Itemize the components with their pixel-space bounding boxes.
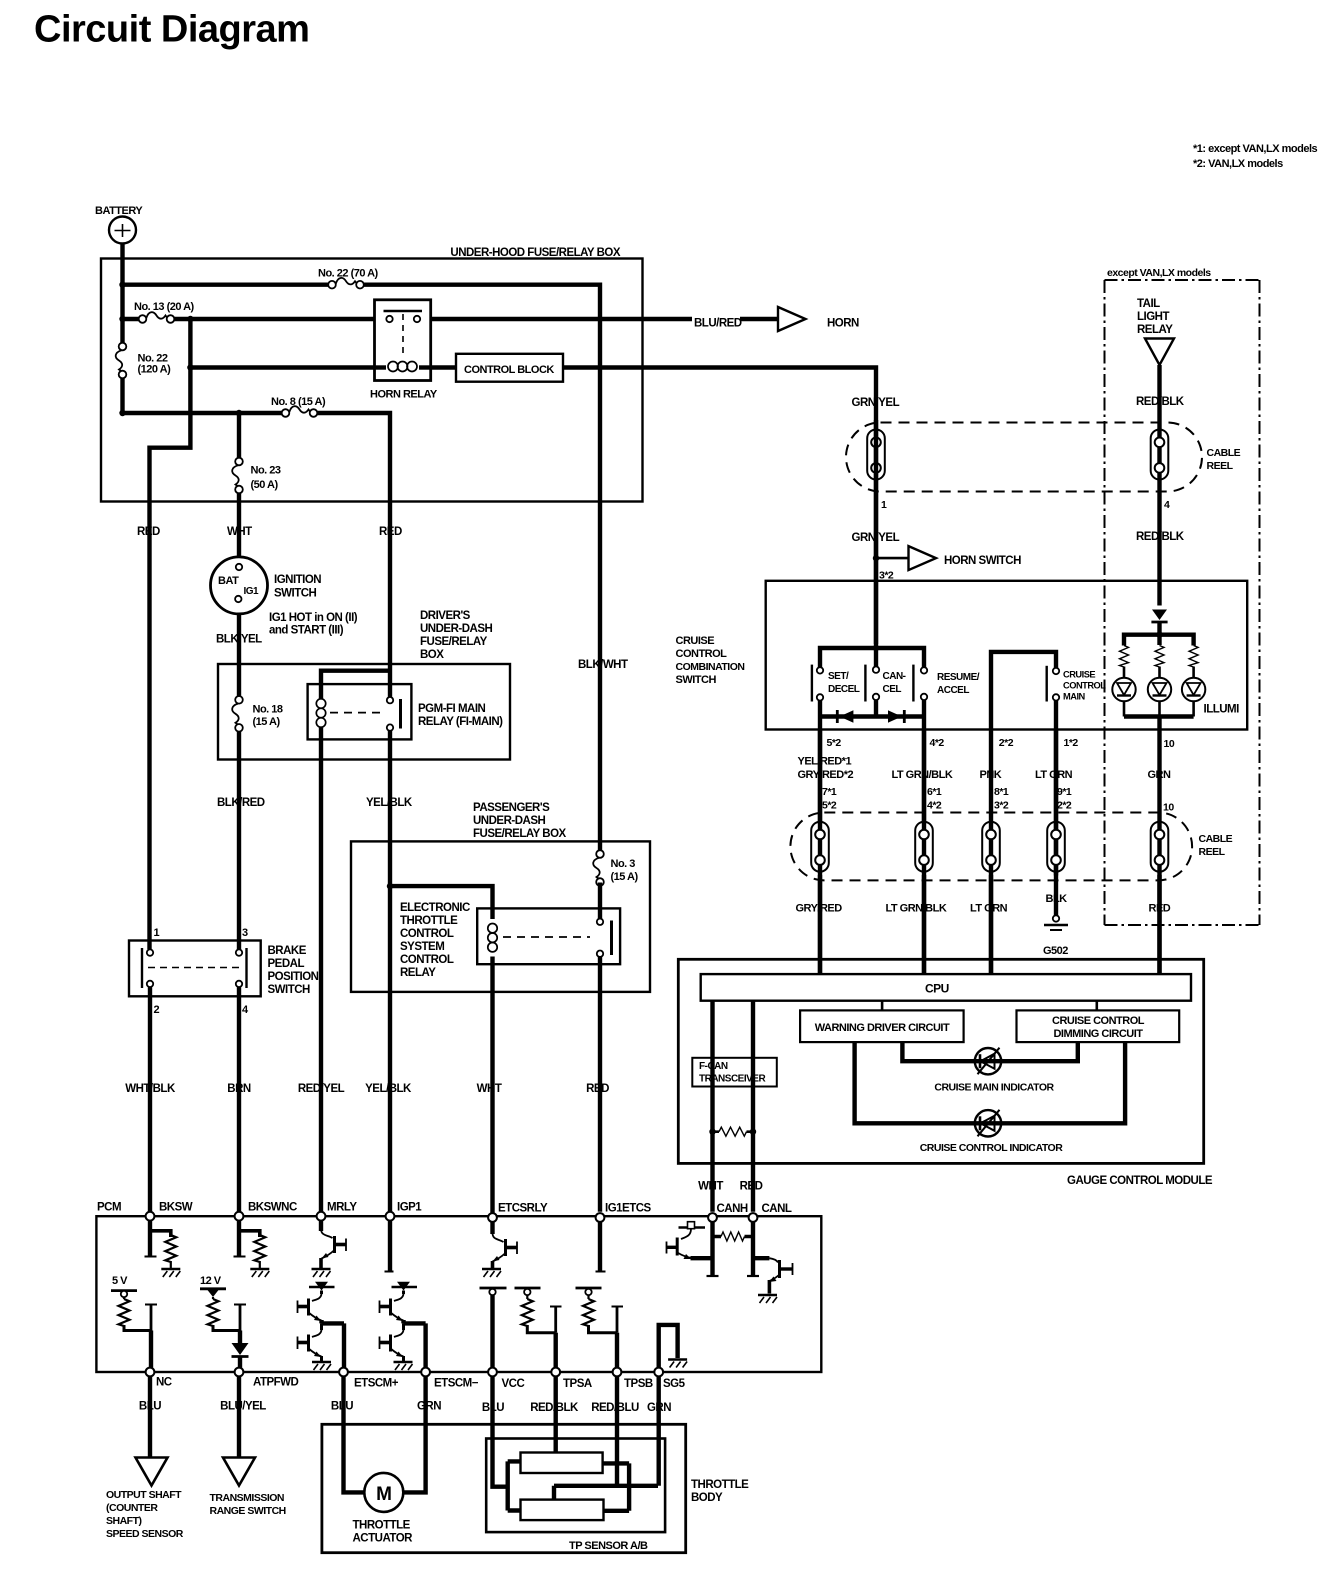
svg-text:(15 A): (15 A) [253, 716, 281, 728]
svg-text:ETCSRLY: ETCSRLY [498, 1203, 548, 1215]
svg-text:HORN: HORN [827, 318, 859, 330]
svg-text:No. 18: No. 18 [253, 704, 283, 716]
fuse No.23 50A [232, 458, 243, 494]
CAN resistor [713, 1235, 754, 1238]
svg-text:RELAY: RELAY [1137, 324, 1173, 336]
svg-text:TPSA: TPSA [563, 1378, 592, 1390]
svg-text:FUSE/RELAY: FUSE/RELAY [420, 636, 488, 648]
wire set/decel pin down [818, 701, 822, 824]
svg-text:TPSB: TPSB [624, 1378, 653, 1390]
wires cable reel into CPU [820, 875, 1160, 975]
svg-text:FUSE/RELAY BOX: FUSE/RELAY BOX [473, 828, 567, 840]
PCM bottom terminals [146, 1368, 155, 1377]
connector grn/yel [867, 430, 885, 480]
diode 2 [888, 710, 902, 722]
svg-text:1: 1 [154, 927, 160, 939]
svg-text:REEL: REEL [1199, 846, 1226, 858]
svg-text:4*2: 4*2 [927, 800, 942, 812]
SG5 cell [659, 1325, 678, 1368]
tp right bus [603, 1463, 630, 1510]
wire WHT No23 down [237, 413, 241, 458]
svg-text:PASSENGER'S: PASSENGER'S [473, 802, 550, 814]
svg-text:CONTROL BLOCK: CONTROL BLOCK [464, 364, 554, 376]
wire ATPFWD to range switch [237, 1376, 241, 1457]
svg-text:CRUISE: CRUISE [1063, 670, 1095, 680]
svg-text:SHAFT): SHAFT) [106, 1515, 142, 1527]
svg-text:PEDAL: PEDAL [268, 958, 305, 970]
svg-text:DRIVER'S: DRIVER'S [420, 610, 471, 622]
svg-text:CONTROL: CONTROL [676, 648, 728, 660]
IGP1 transistor pair [394, 1293, 404, 1301]
svg-text:ATPFWD: ATPFWD [253, 1377, 299, 1389]
svg-text:WHT: WHT [698, 1181, 723, 1193]
svg-text:BLU/RED: BLU/RED [694, 318, 742, 330]
svg-text:(COUNTER: (COUNTER [106, 1502, 158, 1514]
lower cable reel [790, 813, 1192, 881]
svg-text:LIGHT: LIGHT [1137, 311, 1169, 323]
CANH transistor [679, 1226, 706, 1228]
wires through lower cable reel [820, 730, 1056, 975]
svg-text:RED: RED [137, 526, 160, 538]
svg-text:RED: RED [379, 526, 402, 538]
svg-text:*2: VAN,LX models: *2: VAN,LX models [1193, 158, 1283, 170]
BKSW input cell [148, 1221, 152, 1256]
wire TPSB into R2 [615, 1376, 619, 1485]
svg-text:PGM-FI MAIN: PGM-FI MAIN [418, 703, 486, 715]
cruise control dimming circuit [1017, 1010, 1180, 1042]
svg-text:6*1: 6*1 [927, 786, 942, 798]
fuse No.22 70A [328, 278, 364, 289]
MRLY driver cell [319, 1221, 323, 1231]
svg-text:BATTERY: BATTERY [95, 205, 143, 217]
wire ETSCM- to motor [404, 1376, 426, 1492]
svg-text:GRN/YEL: GRN/YEL [852, 397, 900, 409]
svg-text:(50 A): (50 A) [251, 479, 279, 491]
svg-text:2*2: 2*2 [999, 737, 1014, 749]
bus 2*2 [991, 652, 1056, 824]
wire ETCS coil out down [490, 957, 494, 1214]
svg-text:BLK: BLK [1046, 893, 1068, 905]
svg-text:RED/YEL: RED/YEL [298, 1083, 345, 1095]
throttle actuator motor [364, 1473, 403, 1512]
svg-text:BAT: BAT [218, 575, 239, 587]
svg-text:WARNING DRIVER CIRCUIT: WARNING DRIVER CIRCUIT [815, 1022, 950, 1034]
svg-text:PCM: PCM [97, 1202, 121, 1214]
svg-text:WHT: WHT [227, 526, 252, 538]
svg-text:No. 22 (70 A): No. 22 (70 A) [318, 268, 379, 280]
diode 1 [836, 710, 839, 723]
svg-text:ACCEL: ACCEL [937, 685, 969, 696]
wire horn contact to horn [421, 317, 693, 321]
svg-text:TAIL: TAIL [1137, 298, 1160, 310]
TPSA cell [515, 1287, 541, 1290]
wire No13 feed [123, 317, 143, 321]
passenger's under-dash fuse/relay box [351, 841, 650, 992]
svg-text:TRANSCEIVER: TRANSCEIVER [699, 1074, 766, 1085]
wires CPU to circuit boxes [882, 1001, 1097, 1011]
svg-text:ILLUMI: ILLUMI [1204, 704, 1240, 716]
svg-text:DECEL: DECEL [828, 684, 860, 695]
wire TPSA into R1 top [554, 1376, 558, 1452]
svg-text:CRUISE: CRUISE [676, 635, 715, 647]
ATPFWD diode [238, 1331, 242, 1344]
svg-text:IG1 HOT in ON (II): IG1 HOT in ON (II) [269, 612, 358, 624]
svg-text:GRN: GRN [417, 1401, 441, 1413]
svg-text:CPU: CPU [925, 982, 949, 996]
svg-text:CRUISE CONTROL INDICATOR: CRUISE CONTROL INDICATOR [920, 1142, 1064, 1154]
svg-text:BKSW: BKSW [159, 1202, 193, 1214]
can-cel switch [864, 665, 866, 702]
CANH cell [710, 1222, 714, 1276]
svg-text:RELAY (FI-MAIN): RELAY (FI-MAIN) [418, 716, 503, 728]
MRLY 12V bar [309, 1286, 335, 1288]
svg-text:COMBINATION: COMBINATION [676, 661, 745, 673]
svg-text:CANL: CANL [762, 1203, 792, 1215]
IGP1 cell [388, 1221, 392, 1271]
under-hood fuse/relay box [101, 259, 643, 502]
fuse No.22 120A [116, 343, 127, 379]
wire 70A feed [123, 283, 333, 287]
svg-text:LT GRN/BLK: LT GRN/BLK [886, 903, 947, 915]
svg-text:2*2: 2*2 [1057, 800, 1072, 812]
svg-text:CRUISE MAIN INDICATOR: CRUISE MAIN INDICATOR [934, 1082, 1054, 1094]
svg-text:GAUGE CONTROL MODULE: GAUGE CONTROL MODULE [1067, 1175, 1213, 1187]
ETCSRLY driver cell [490, 1222, 494, 1234]
svg-text:THROTTLE: THROTTLE [400, 915, 458, 927]
connector red/blk [1151, 430, 1169, 480]
svg-text:12 V: 12 V [200, 1275, 222, 1287]
svg-text:GRN: GRN [1148, 769, 1172, 781]
svg-text:5 V: 5 V [112, 1275, 128, 1287]
warning driver circuit [800, 1010, 964, 1042]
svg-text:9*1: 9*1 [1057, 786, 1072, 798]
svg-text:CONTROL: CONTROL [400, 954, 454, 966]
svg-text:CANH: CANH [717, 1203, 748, 1215]
svg-text:THROTTLE: THROTTLE [353, 1520, 411, 1532]
horn switch branch [873, 555, 879, 561]
svg-text:BKSWNC: BKSWNC [248, 1202, 297, 1214]
svg-text:SWITCH: SWITCH [274, 588, 317, 600]
svg-text:UNDER-DASH: UNDER-DASH [473, 815, 546, 827]
gauge control module box [678, 959, 1203, 1163]
switch top bus [820, 648, 924, 667]
ignition switch [211, 557, 268, 614]
wire ignition to No18 fuse [237, 614, 241, 697]
wires CANH/CANL down [713, 1001, 754, 1212]
svg-text:SPEED SENSOR: SPEED SENSOR [106, 1528, 184, 1540]
svg-text:SWITCH: SWITCH [676, 674, 717, 686]
svg-text:IGNITION: IGNITION [274, 574, 321, 586]
svg-text:BLK/WHT: BLK/WHT [578, 659, 628, 671]
svg-text:RELAY: RELAY [400, 967, 436, 979]
svg-text:1*2: 1*2 [1064, 737, 1079, 749]
svg-text:G502: G502 [1043, 945, 1068, 957]
svg-text:BRN: BRN [227, 1083, 251, 1095]
svg-text:5*2: 5*2 [827, 737, 842, 749]
wire No8 line [123, 411, 286, 415]
wire ETSCM+ to motor [344, 1376, 365, 1492]
svg-text:5*2: 5*2 [822, 800, 837, 812]
CPU [701, 974, 1191, 1001]
wire MRLY line down [319, 727, 323, 1212]
svg-text:10: 10 [1163, 802, 1174, 814]
wire ETCS relay out down [598, 957, 602, 1212]
svg-text:GRN/YEL: GRN/YEL [852, 532, 900, 544]
fuse No.3 [593, 850, 604, 886]
junction dots [119, 282, 125, 288]
svg-text:4: 4 [1164, 499, 1170, 511]
svg-text:RED: RED [740, 1181, 763, 1193]
cruise control combination switch box [766, 581, 1247, 730]
wire VCC into tp sensor [493, 1376, 508, 1486]
fuse No.18 [232, 696, 243, 732]
CAN terminator resistor [709, 1129, 715, 1135]
svg-text:PNK: PNK [980, 769, 1002, 781]
svg-text:3: 3 [242, 927, 248, 939]
PCM box [96, 1216, 821, 1372]
wire red step branch [150, 319, 191, 949]
svg-text:*1: except VAN,LX models: *1: except VAN,LX models [1193, 143, 1317, 155]
MRLY transistor pair [312, 1293, 322, 1301]
wire branch to ETCS coil [390, 886, 493, 919]
wire tail relay down [1157, 365, 1161, 606]
CANL transistor [753, 1256, 769, 1260]
set/decel switch [811, 665, 813, 702]
svg-text:IG1ETCS: IG1ETCS [605, 1203, 652, 1215]
svg-text:BODY: BODY [691, 1492, 723, 1504]
svg-text:THROTTLE: THROTTLE [691, 1479, 749, 1491]
throttle body box [322, 1424, 686, 1552]
IG1ETCS stub [598, 1222, 602, 1271]
wire No18 down to brake sw [237, 732, 241, 950]
svg-text:CONTROL: CONTROL [1063, 681, 1106, 691]
svg-text:F-CAN: F-CAN [699, 1061, 728, 1072]
PGM-FI main relay [308, 684, 412, 739]
horn relay [375, 300, 431, 381]
svg-text:YEL/BLK: YEL/BLK [365, 1083, 412, 1095]
svg-text:SET/: SET/ [828, 671, 849, 682]
svg-text:OUTPUT SHAFT: OUTPUT SHAFT [106, 1489, 182, 1501]
svg-text:YEL/BLK: YEL/BLK [366, 797, 413, 809]
svg-text:BOX: BOX [420, 649, 444, 661]
svg-text:No. 3: No. 3 [611, 858, 636, 870]
resume/accel switch [912, 665, 914, 702]
svg-text:No. 8 (15 A): No. 8 (15 A) [271, 396, 326, 408]
svg-text:GRY/RED*2: GRY/RED*2 [798, 769, 854, 781]
G502 ground [1053, 915, 1059, 921]
illumi resistor bus [1124, 635, 1194, 646]
svg-text:DIMMING CIRCUIT: DIMMING CIRCUIT [1053, 1028, 1143, 1040]
CANL cell [751, 1222, 755, 1276]
tp left bus [508, 1461, 521, 1510]
VCC cell [480, 1287, 507, 1290]
svg-text:ETSCM−: ETSCM− [434, 1378, 479, 1390]
driver's under-dash fuse/relay box [218, 664, 510, 760]
wire BLK/WHT through fuse to relay [598, 883, 602, 919]
svg-text:7*1: 7*1 [822, 786, 837, 798]
wire battery down [123, 244, 877, 950]
svg-text:and START (III): and START (III) [269, 625, 344, 637]
svg-text:RED/BLK: RED/BLK [1136, 531, 1185, 543]
svg-text:RED/BLK: RED/BLK [1136, 396, 1185, 408]
svg-text:(15 A): (15 A) [611, 871, 639, 883]
svg-text:No. 23: No. 23 [251, 465, 281, 477]
cruise control indicator loop [855, 1042, 1126, 1123]
illumi resistors [1120, 646, 1129, 668]
svg-text:4*2: 4*2 [930, 737, 945, 749]
brake pedal position switch [129, 941, 261, 997]
svg-text:YEL/RED*1: YEL/RED*1 [798, 756, 852, 768]
wire NC to speed sensor [148, 1376, 152, 1457]
svg-text:except VAN,LX models: except VAN,LX models [1107, 267, 1211, 279]
svg-text:RED: RED [586, 1083, 609, 1095]
svg-text:3*2: 3*2 [994, 800, 1009, 812]
svg-text:BLK/RED: BLK/RED [217, 797, 265, 809]
svg-text:HORN RELAY: HORN RELAY [370, 389, 438, 401]
svg-text:MRLY: MRLY [327, 1202, 357, 1214]
svg-text:SWITCH: SWITCH [268, 984, 311, 996]
wire GRN/YEL down to comb switch [874, 420, 878, 648]
svg-text:WHT: WHT [477, 1083, 502, 1095]
svg-text:HORN SWITCH: HORN SWITCH [944, 555, 1021, 567]
svg-text:CABLE: CABLE [1199, 833, 1233, 845]
svg-text:CEL: CEL [883, 684, 902, 695]
IGP1 12V bar [392, 1286, 418, 1288]
battery [109, 217, 136, 244]
upper cable reel [846, 423, 1202, 492]
wire brake sw down to PCM [148, 987, 152, 1212]
svg-text:2: 2 [154, 1004, 160, 1016]
fuse No.13 20A [139, 312, 175, 323]
TP sensor resistors [521, 1453, 603, 1474]
svg-text:SG5: SG5 [663, 1378, 686, 1390]
ETCS control relay [477, 908, 620, 964]
F-CAN transceiver [692, 1058, 777, 1087]
svg-text:BRAKE: BRAKE [268, 945, 307, 957]
except VAN,LX models dash-dot box [1105, 280, 1260, 925]
PCM top terminals [146, 1212, 155, 1221]
svg-text:1: 1 [881, 499, 887, 511]
svg-text:RESUME/: RESUME/ [937, 672, 980, 683]
illumi leds [1124, 667, 1194, 678]
wire relay top feed [321, 671, 390, 700]
wire illumi down [1157, 717, 1161, 975]
svg-text:10: 10 [1164, 738, 1175, 750]
svg-text:M: M [376, 1484, 391, 1505]
svg-text:ELECTRONIC: ELECTRONIC [400, 902, 470, 914]
wire resume pin down [922, 700, 926, 824]
cruise main indicator loop [902, 1042, 1077, 1061]
svg-text:VCC: VCC [502, 1378, 525, 1390]
svg-text:ACTUATOR: ACTUATOR [353, 1533, 414, 1545]
wire coil to control block [190, 365, 374, 369]
svg-text:No. 13 (20 A): No. 13 (20 A) [134, 301, 195, 313]
fuse No.8 15A [282, 406, 318, 417]
control block [456, 354, 563, 382]
BKSWNC input cell [237, 1221, 241, 1256]
svg-text:CABLE: CABLE [1207, 447, 1241, 459]
svg-text:TRANSMISSION: TRANSMISSION [210, 1492, 285, 1504]
svg-text:NC: NC [156, 1377, 172, 1389]
wire YEL/BLK down w branch [388, 731, 392, 1212]
svg-text:UNDER-HOOD FUSE/RELAY BOX: UNDER-HOOD FUSE/RELAY BOX [450, 247, 620, 259]
illumi diode [1152, 610, 1167, 621]
diode bus [820, 700, 924, 716]
svg-text:REEL: REEL [1207, 460, 1234, 472]
svg-text:CRUISE CONTROL: CRUISE CONTROL [1052, 1015, 1145, 1027]
svg-text:WHT/BLK: WHT/BLK [125, 1083, 176, 1095]
TP sensor box [486, 1439, 665, 1533]
svg-text:ETSCM+: ETSCM+ [354, 1378, 399, 1390]
cruise control main switch [1045, 666, 1047, 702]
svg-text:IGP1: IGP1 [397, 1202, 422, 1214]
svg-text:IG1: IG1 [244, 586, 260, 597]
svg-text:POSITION: POSITION [268, 971, 319, 983]
svg-text:BLU/YEL: BLU/YEL [220, 1401, 266, 1413]
svg-text:SYSTEM: SYSTEM [400, 941, 444, 953]
svg-text:RANGE SWITCH: RANGE SWITCH [210, 1505, 286, 1517]
svg-text:TP SENSOR A/B: TP SENSOR A/B [569, 1540, 648, 1552]
svg-text:MAIN: MAIN [1063, 692, 1086, 702]
svg-text:CONTROL: CONTROL [400, 928, 454, 940]
svg-text:UNDER-DASH: UNDER-DASH [420, 623, 493, 635]
TPSB cell [576, 1287, 602, 1290]
svg-text:8*1: 8*1 [994, 786, 1009, 798]
svg-text:CAN-: CAN- [883, 671, 906, 682]
svg-text:Circuit Diagram: Circuit Diagram [34, 9, 309, 51]
svg-text:(120 A): (120 A) [138, 364, 172, 376]
wire SG5 / GRN [657, 1376, 661, 1485]
